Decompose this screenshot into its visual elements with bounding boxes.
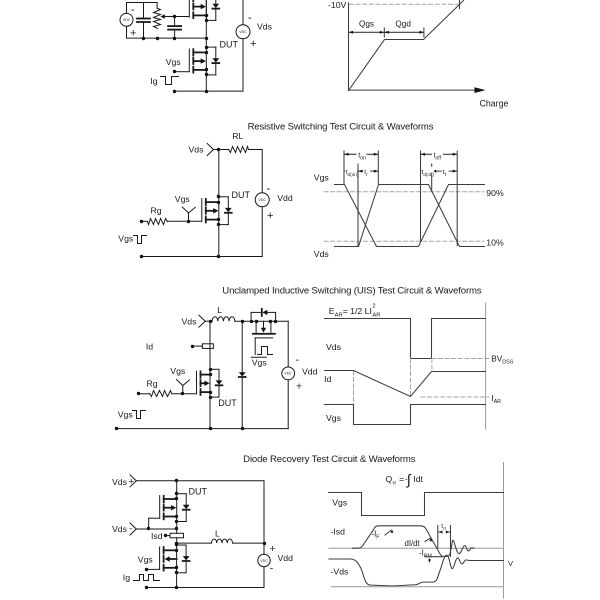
svg-text:Rg: Rg bbox=[151, 206, 162, 216]
wire gate charge curve bbox=[349, 1, 464, 91]
svg-text:-: - bbox=[267, 183, 271, 195]
wire guide lines t_on group bbox=[343, 151, 345, 184]
node clamp gate pulse bbox=[258, 347, 273, 355]
svg-text:DUT: DUT bbox=[232, 190, 251, 200]
svg-text:VDC: VDC bbox=[123, 18, 131, 22]
svg-text:Id: Id bbox=[324, 374, 331, 384]
dashed BVDSS level bbox=[432, 358, 489, 360]
svg-text:Ig: Ig bbox=[150, 76, 157, 86]
wire Qgd ticks and arrow bbox=[423, 28, 425, 37]
wire t_off arrow bbox=[421, 153, 457, 155]
diode Q1 body diode bbox=[215, 0, 217, 4]
wire Isd zero line bbox=[329, 547, 504, 549]
wire Vgs waveform DR bbox=[329, 493, 504, 516]
svg-text:-: - bbox=[248, 12, 252, 24]
svg-text:90%: 90% bbox=[486, 188, 504, 198]
dashed IAR level bbox=[421, 396, 489, 398]
dc source VDC gate supply bbox=[126, 3, 128, 14]
dashed vertical guides UIS bbox=[410, 359, 412, 397]
svg-text:-: - bbox=[296, 354, 300, 366]
svg-text:L: L bbox=[217, 305, 222, 315]
wire Qgs ticks and arrow bbox=[383, 28, 385, 37]
svg-text:-: - bbox=[270, 562, 274, 574]
wire t_rr ticks and arrows bbox=[437, 526, 439, 548]
svg-text:Idt: Idt bbox=[413, 474, 423, 484]
svg-text:VDC: VDC bbox=[284, 372, 292, 376]
svg-text:DUT: DUT bbox=[189, 487, 208, 497]
transistor low-side switch DR bbox=[163, 547, 165, 553]
wire clamp top rail bbox=[251, 320, 288, 322]
svg-text:Vdd: Vdd bbox=[278, 553, 294, 563]
wire right boundary UIS bbox=[485, 303, 487, 429]
wire Id waveform UIS bbox=[325, 371, 486, 397]
svg-text:+: + bbox=[250, 38, 256, 50]
diode DUT body diode bbox=[227, 197, 229, 208]
node drain junction bbox=[217, 148, 220, 151]
transistor DUT UIS bbox=[200, 371, 202, 377]
svg-text:Id: Id bbox=[146, 342, 153, 352]
svg-text:Rg: Rg bbox=[147, 379, 158, 389]
svg-text:Q: Q bbox=[386, 474, 393, 484]
transistor clamp switch (rotated) bbox=[255, 321, 257, 332]
wire Vgs waveform bbox=[335, 185, 485, 247]
svg-text:Vgs: Vgs bbox=[166, 57, 182, 67]
dashed 90% level bbox=[324, 191, 484, 193]
svg-text:VDC: VDC bbox=[260, 559, 268, 563]
wire source ground rail bbox=[141, 256, 262, 258]
axis horizontal Charge bbox=[349, 89, 476, 91]
transistor DUT diode-recovery bbox=[163, 496, 165, 502]
diode low-side body diode DR bbox=[185, 545, 187, 556]
diode freewheel middle branch bbox=[241, 321, 243, 372]
transistor Q1 driver (cut off at top) bbox=[192, 0, 194, 1]
wire ground rail DR bbox=[147, 587, 264, 589]
svg-text:-10V: -10V bbox=[328, 0, 347, 10]
svg-text:Vds: Vds bbox=[112, 524, 128, 534]
svg-text:VDC: VDC bbox=[258, 198, 266, 202]
svg-text:+: + bbox=[267, 210, 273, 222]
wire DUT drain bbox=[218, 150, 220, 197]
svg-text:-Isd: -Isd bbox=[331, 527, 346, 537]
svg-text:= 1/2 LI: = 1/2 LI bbox=[343, 306, 372, 316]
transistor DUT resistive bbox=[205, 199, 207, 205]
wire Vds waveform UIS bbox=[325, 319, 486, 359]
wire right boundary DR bbox=[503, 463, 505, 599]
svg-text:=: = bbox=[399, 474, 404, 484]
svg-text:Vgs: Vgs bbox=[118, 410, 134, 420]
diode clamp body diode (horizontal) bbox=[250, 312, 252, 321]
svg-text:Resistive Switching Test Circu: Resistive Switching Test Circuit & Wavef… bbox=[248, 122, 434, 133]
svg-text:DUT: DUT bbox=[220, 39, 239, 49]
wire source rail bottom bbox=[175, 90, 243, 92]
svg-text:Vgs: Vgs bbox=[326, 413, 342, 423]
dc source VDC Vds supply bbox=[242, 1, 244, 25]
svg-text:Isd: Isd bbox=[151, 531, 163, 541]
svg-text:Qgs: Qgs bbox=[359, 20, 374, 29]
wire ground rail UIS bbox=[116, 428, 288, 430]
wire ground rail gate-drive bbox=[127, 37, 207, 39]
svg-text:Vds: Vds bbox=[257, 22, 273, 32]
wire Vdd branch bbox=[261, 150, 263, 193]
svg-text:Vds: Vds bbox=[189, 145, 205, 155]
svg-text:VDC: VDC bbox=[239, 30, 247, 34]
svg-text:-: - bbox=[131, 4, 135, 16]
svg-text:Diode Recovery Test Circuit &: Diode Recovery Test Circuit & Waveforms bbox=[243, 454, 416, 465]
potentiometer gate drive bbox=[156, 3, 158, 9]
svg-text:2: 2 bbox=[372, 303, 375, 309]
svg-text:Vds: Vds bbox=[112, 477, 128, 487]
dashed 10% level bbox=[324, 240, 484, 242]
svg-text:rr: rr bbox=[393, 480, 397, 486]
svg-text:DUT: DUT bbox=[218, 398, 237, 408]
dc source VDC Vdd bbox=[255, 193, 269, 207]
svg-text:+: + bbox=[296, 381, 302, 393]
svg-text:AR: AR bbox=[335, 312, 343, 318]
svg-text:Vds: Vds bbox=[326, 342, 342, 352]
wire Vds waveform bbox=[335, 185, 485, 247]
svg-text:L: L bbox=[215, 529, 220, 539]
wire gate link DR bbox=[148, 518, 150, 529]
wire DUT drain DR bbox=[176, 481, 178, 494]
svg-text:dI/dt: dI/dt bbox=[405, 539, 421, 548]
svg-text:Unclamped Inductive Switching: Unclamped Inductive Switching (UIS) Test… bbox=[222, 286, 482, 297]
svg-text:Vgs: Vgs bbox=[175, 194, 191, 204]
wire Vdd branch DR bbox=[263, 481, 265, 555]
svg-text:Vgs: Vgs bbox=[314, 173, 330, 183]
svg-text:-Vds: -Vds bbox=[331, 567, 350, 577]
svg-text:Vgs: Vgs bbox=[170, 366, 186, 376]
svg-text:RL: RL bbox=[232, 131, 243, 141]
wire t_d(off) t_f arrows bbox=[421, 170, 431, 172]
wire -Vds waveform bbox=[329, 555, 504, 586]
svg-text:Vdd: Vdd bbox=[302, 366, 318, 376]
svg-text:+: + bbox=[270, 543, 276, 555]
svg-text:Vgs: Vgs bbox=[332, 498, 348, 508]
wire drain bus to DUT bbox=[205, 1, 207, 48]
svg-text:AR: AR bbox=[372, 312, 380, 318]
wire t_d(on) t_r arrows bbox=[345, 170, 358, 172]
wire t_on arrow bbox=[345, 153, 378, 155]
wire bottom reference line bbox=[332, 586, 504, 588]
capacitor gate-supply filter bbox=[143, 3, 145, 19]
svg-text:Charge: Charge bbox=[480, 99, 509, 109]
wire tick -10V crossing bbox=[459, 1, 461, 9]
axis vertical gate-charge plot bbox=[348, 3, 350, 90]
capacitor wiper filter bbox=[174, 17, 176, 27]
diode DUT body diode DR bbox=[185, 494, 187, 505]
diode Q2 body diode bbox=[215, 47, 217, 58]
svg-text:Vdd: Vdd bbox=[277, 193, 293, 203]
wire DUT drain UIS bbox=[209, 321, 211, 369]
wire Vgs waveform UIS bbox=[325, 405, 486, 425]
svg-text:Vgs: Vgs bbox=[118, 234, 134, 244]
wire pot wiper bbox=[160, 14, 164, 18]
wire -Isd waveform bbox=[353, 526, 475, 557]
svg-text:Qgd: Qgd bbox=[395, 20, 411, 29]
dc source VDC Vdd UIS bbox=[282, 367, 295, 380]
svg-text:Vds: Vds bbox=[314, 249, 330, 259]
svg-text:10%: 10% bbox=[486, 237, 504, 247]
transistor Q2 DUT bbox=[192, 49, 194, 55]
dashed -10V level bbox=[350, 3, 459, 5]
wire guide lines t_off group bbox=[420, 151, 422, 241]
svg-text:V: V bbox=[508, 559, 513, 568]
svg-text:+: + bbox=[130, 27, 136, 39]
svg-text:Vds: Vds bbox=[182, 317, 198, 327]
wire top rail gate-drive supply bbox=[127, 2, 158, 4]
wire Vdd branch UIS bbox=[287, 321, 289, 367]
dc source VDC Vdd DR bbox=[258, 554, 270, 566]
svg-text:Vgs: Vgs bbox=[252, 358, 268, 368]
diode DUT body diode UIS bbox=[218, 369, 220, 380]
svg-text:Vgs: Vgs bbox=[138, 555, 154, 565]
svg-text:Ig: Ig bbox=[123, 573, 130, 583]
